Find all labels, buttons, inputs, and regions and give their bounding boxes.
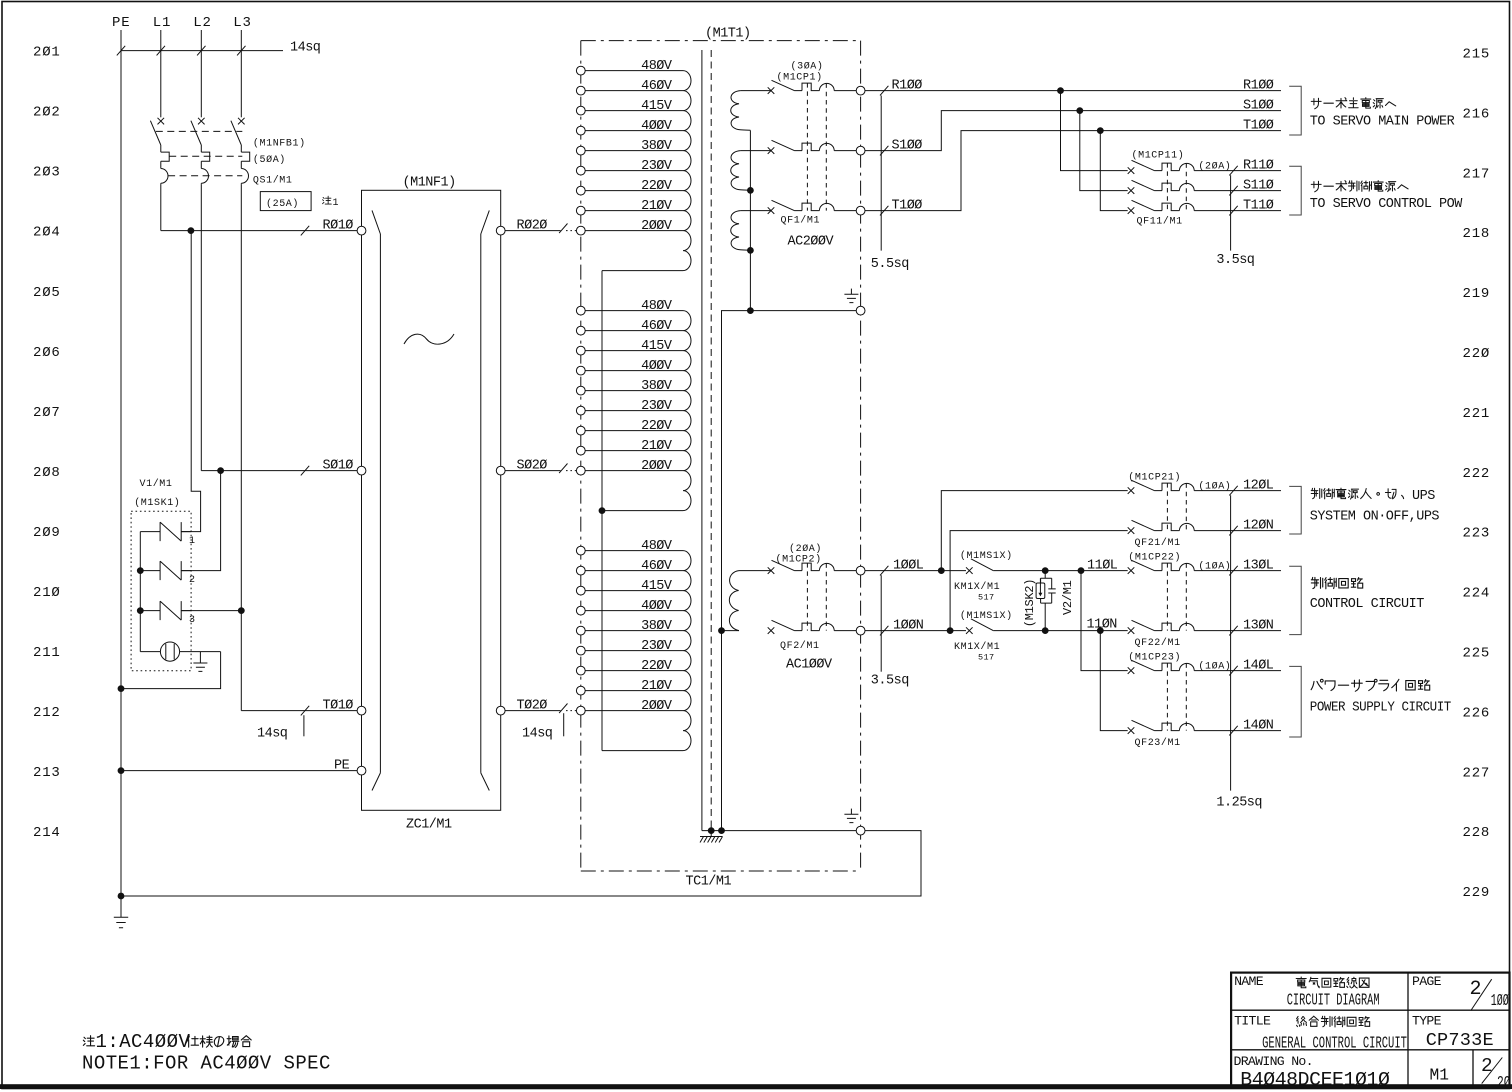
size slash <box>1229 566 1237 576</box>
wire S010 row <box>201 470 357 472</box>
svg-text:2Ø3: 2Ø3 <box>33 165 61 181</box>
wire core/bus bottom <box>702 830 856 832</box>
svg-text:V1/M1: V1/M1 <box>140 478 173 490</box>
svg-text:UPS: UPS <box>1412 489 1435 504</box>
wire L3 to T010 <box>240 184 242 711</box>
svg-text:(5ØA): (5ØA) <box>253 154 286 166</box>
contact KM1X/M1 on 100L <box>966 559 993 574</box>
svg-text:M1: M1 <box>1430 1067 1449 1085</box>
svg-text:2Ø8: 2Ø8 <box>33 465 61 481</box>
junction dot R100 tap <box>1057 87 1064 94</box>
svg-text:T1ØØ: T1ØØ <box>1243 118 1274 133</box>
svg-text:11ØL: 11ØL <box>1087 558 1118 573</box>
svg-text:(2ØA): (2ØA) <box>789 543 822 555</box>
size slash 100L <box>880 566 888 576</box>
svg-text:TO SERVO CONTROL POW: TO SERVO CONTROL POW <box>1310 197 1463 212</box>
secondary winding AC100V <box>739 570 771 572</box>
circuit breaker QF21/M1 (M1CP21) 2-pole <box>1128 480 1281 534</box>
size slash <box>237 46 245 56</box>
svg-text:QS1/M1: QS1/M1 <box>253 175 293 187</box>
svg-text:AC1ØØV: AC1ØØV <box>786 658 833 673</box>
circuit breaker QF1/M1 (M1CP1) 3-pole <box>768 80 857 214</box>
terminal 100L <box>856 566 865 575</box>
svg-text:14ØL: 14ØL <box>1243 658 1274 673</box>
svg-text:21Ø: 21Ø <box>33 585 61 601</box>
svg-text:517: 517 <box>978 652 995 662</box>
bracket power supply <box>1289 666 1301 737</box>
wire 110N <box>993 630 1127 632</box>
size leader 1.25sq <box>1230 495 1232 790</box>
text system on off UPS <box>1311 488 1322 498</box>
size slash <box>1229 486 1237 496</box>
svg-text:(1ØA): (1ØA) <box>1198 660 1231 672</box>
svg-text:B4Ø48DCEE1Ø1Ø: B4Ø48DCEE1Ø1Ø <box>1240 1069 1390 1091</box>
wire varistor3 to L3 <box>181 610 241 612</box>
note text 1 <box>83 1036 94 1046</box>
svg-text:RØ2Ø: RØ2Ø <box>517 218 548 233</box>
svg-text:3: 3 <box>189 615 196 626</box>
wire 100L to 120L <box>941 491 1127 571</box>
size slash <box>1229 526 1237 536</box>
bracket control circuit <box>1289 566 1301 634</box>
svg-text:2Ø4: 2Ø4 <box>33 225 61 241</box>
svg-text:TC1/M1: TC1/M1 <box>686 875 732 890</box>
svg-text:227: 227 <box>1463 765 1491 781</box>
svg-text:14sq: 14sq <box>522 727 552 742</box>
wire L3 top <box>240 30 242 117</box>
junction dot 110N branch <box>1097 627 1104 634</box>
svg-text:KM1X/M1: KM1X/M1 <box>954 581 1000 593</box>
size slash <box>1229 206 1237 216</box>
svg-text:12ØN: 12ØN <box>1243 518 1274 533</box>
svg-text:QF21/M1: QF21/M1 <box>1135 537 1181 549</box>
junction dot PE/spark <box>118 685 125 692</box>
svg-text:TYPE: TYPE <box>1412 1014 1442 1029</box>
wire T020 <box>505 710 560 712</box>
svg-text:14sq: 14sq <box>290 41 320 56</box>
size slash S100 <box>880 146 888 156</box>
junction dot varistor3/L3 <box>238 607 245 614</box>
wire PE row <box>121 770 357 772</box>
noise filter ZC1/M1 (M1NF1) <box>357 175 505 832</box>
wire T100 to QF11 <box>1100 131 1127 211</box>
svg-text:PAGE: PAGE <box>1412 974 1442 989</box>
transformer core <box>701 50 703 831</box>
svg-text:TØ1Ø: TØ1Ø <box>323 698 354 713</box>
junction dot S010/V2 <box>217 467 224 474</box>
text power supply circuit <box>1311 679 1323 689</box>
svg-text:SØ2Ø: SØ2Ø <box>517 458 548 473</box>
svg-text:1:AC4ØØV: 1:AC4ØØV <box>96 1031 191 1053</box>
svg-text:QF22/M1: QF22/M1 <box>1135 637 1181 649</box>
svg-text:(2ØA): (2ØA) <box>1198 160 1231 172</box>
svg-text:3.5sq: 3.5sq <box>1216 253 1254 268</box>
svg-text:5.5sq: 5.5sq <box>871 257 909 272</box>
wire L2 top <box>200 30 202 117</box>
svg-text:3.5sq: 3.5sq <box>871 673 909 688</box>
wire 110L <box>993 570 1127 572</box>
size slash T100 <box>880 206 888 216</box>
svg-text:(3ØA): (3ØA) <box>791 61 824 73</box>
wire S100 <box>865 111 1281 151</box>
svg-text:222: 222 <box>1463 466 1491 482</box>
svg-text:R11Ø: R11Ø <box>1243 158 1274 173</box>
svg-text:(M1SK2): (M1SK2) <box>1023 579 1037 627</box>
secondary winding T100 <box>741 210 771 212</box>
svg-text:2: 2 <box>189 575 196 586</box>
bracket servo main <box>1289 86 1301 135</box>
svg-text:13ØN: 13ØN <box>1243 618 1274 633</box>
wire S020 <box>505 470 560 472</box>
wire L1 top <box>160 30 162 117</box>
svg-text:(M1NFB1): (M1NFB1) <box>253 138 306 150</box>
size slash <box>1229 186 1237 196</box>
transformer enclosure TC1/M1 (M1T1) <box>581 40 861 42</box>
junction dot 100N branch <box>947 627 954 634</box>
wire PE vertical <box>120 30 122 896</box>
svg-text:TITLE: TITLE <box>1234 1014 1271 1029</box>
earth symbol at V1 <box>199 652 201 663</box>
svg-text:(M1MS1X): (M1MS1X) <box>960 550 1013 562</box>
svg-text:QF1/M1: QF1/M1 <box>781 215 821 227</box>
svg-text:212: 212 <box>33 705 61 721</box>
wire varistor2 to S010 <box>181 471 220 571</box>
svg-text:(M1CP22): (M1CP22) <box>1128 551 1181 563</box>
svg-text:S11Ø: S11Ø <box>1243 178 1274 193</box>
svg-text:L2: L2 <box>193 15 211 31</box>
svg-text:217: 217 <box>1463 166 1491 182</box>
svg-text:13ØL: 13ØL <box>1243 558 1274 573</box>
junction dot T100 tap <box>1097 127 1104 134</box>
row numbers left 201-214 <box>33 45 61 842</box>
wire star bus to case ground top <box>750 310 856 312</box>
svg-text:1: 1 <box>333 198 340 209</box>
size leader 14sq T020 <box>563 713 565 736</box>
wire L1 to R010 <box>160 184 162 231</box>
wire varistor1 to R010 <box>181 231 200 532</box>
svg-text:1ØØL: 1ØØL <box>893 558 924 573</box>
svg-text:2Ø9: 2Ø9 <box>33 525 61 541</box>
size slash <box>1229 666 1237 676</box>
svg-text:228: 228 <box>1463 825 1491 841</box>
svg-text:14ØN: 14ØN <box>1243 718 1274 733</box>
bracket servo control <box>1289 166 1301 215</box>
svg-text:GENERAL CONTROL CIRCUIT: GENERAL CONTROL CIRCUIT <box>1262 1034 1407 1053</box>
junction dot 100L branch <box>938 567 945 574</box>
circuit breaker QS1/M1 (M1NFB1) 3-pole <box>150 118 249 184</box>
junction dot S100 tap <box>1076 107 1083 114</box>
svg-text:T1ØØ: T1ØØ <box>892 198 923 213</box>
wire 100N coil to bus <box>722 630 740 632</box>
contact KM1X/M1 on 100N <box>966 619 993 634</box>
size slash <box>157 46 165 56</box>
svg-text:T11Ø: T11Ø <box>1243 198 1274 213</box>
text servo control power <box>1311 181 1321 192</box>
size leader 5.5sq <box>880 96 882 251</box>
svg-text:229: 229 <box>1463 885 1491 901</box>
svg-text:V2/M1: V2/M1 <box>1061 580 1075 615</box>
svg-text:(M1NF1): (M1NF1) <box>403 175 456 190</box>
svg-text:(M1MS1X): (M1MS1X) <box>960 610 1013 622</box>
svg-text:CP733E: CP733E <box>1426 1030 1494 1051</box>
svg-text:(1ØA): (1ØA) <box>1198 480 1231 492</box>
chassis ground <box>710 831 712 837</box>
size slash <box>117 46 125 56</box>
terminal 100N <box>856 626 865 635</box>
svg-text:PE: PE <box>112 15 130 31</box>
svg-text:(M1CP21): (M1CP21) <box>1128 471 1181 483</box>
wire 100N to 120N <box>950 531 1128 631</box>
size slash <box>197 46 205 56</box>
secondary winding R100 <box>741 90 771 92</box>
svg-text:KM1X/M1: KM1X/M1 <box>954 641 1000 653</box>
svg-text:S1ØØ: S1ØØ <box>892 138 923 153</box>
svg-text:221: 221 <box>1463 406 1491 422</box>
svg-text:DRAWING No.: DRAWING No. <box>1234 1054 1313 1069</box>
wire spark gap to PE <box>121 652 221 689</box>
junction dot primary bus <box>599 507 606 514</box>
svg-text:226: 226 <box>1463 705 1491 721</box>
svg-text:(M1CP23): (M1CP23) <box>1128 651 1181 663</box>
wire 14sq size line row201 <box>121 50 283 52</box>
svg-text:QF23/M1: QF23/M1 <box>1135 737 1181 749</box>
svg-text:TO SERVO MAIN POWER: TO SERVO MAIN POWER <box>1310 114 1455 129</box>
svg-text:1ØØN: 1ØØN <box>893 618 924 633</box>
svg-text:NAME: NAME <box>1234 974 1264 989</box>
wire S100 to QF11 <box>1080 111 1128 191</box>
svg-text:L3: L3 <box>233 15 251 31</box>
size slash <box>1229 626 1237 636</box>
terminal R100 <box>856 86 865 95</box>
text servo main power <box>1311 98 1321 109</box>
svg-text:211: 211 <box>33 645 61 661</box>
earth symbol bottom <box>850 809 852 815</box>
svg-text:2: 2 <box>1481 1055 1493 1077</box>
svg-text:1.25sq: 1.25sq <box>1216 796 1262 811</box>
svg-text:213: 213 <box>33 765 61 781</box>
circuit breaker QF22/M1 (M1CP22) 2-pole <box>1128 560 1281 634</box>
svg-text:2Ø7: 2Ø7 <box>33 405 61 421</box>
terminal case ground top <box>856 306 865 315</box>
size slash S010 <box>301 466 309 476</box>
size slash <box>1229 726 1237 736</box>
circuit breaker QF23/M1 (M1CP23) 2-pole <box>1128 660 1281 734</box>
terminal S100 <box>856 146 865 155</box>
svg-text:1: 1 <box>189 536 196 547</box>
svg-text:AC2ØØV: AC2ØØV <box>788 234 835 249</box>
svg-text:PE: PE <box>334 759 350 774</box>
svg-text:219: 219 <box>1463 286 1491 302</box>
size leader 3.5sq left <box>880 575 882 672</box>
wire R020 <box>505 230 560 232</box>
svg-text:SØ1Ø: SØ1Ø <box>323 458 354 473</box>
svg-text:QF11/M1: QF11/M1 <box>1137 215 1183 227</box>
size leader 3.5sq right <box>1230 175 1232 250</box>
size leader 14sq <box>303 715 305 736</box>
earth symbol top <box>850 289 852 295</box>
note box (25A) <box>260 192 311 211</box>
junction dot R010/V1 <box>188 227 195 234</box>
row numbers right 215-229 <box>1463 47 1491 902</box>
svg-text:R1ØØ: R1ØØ <box>1243 78 1274 93</box>
secondary winding S100 <box>741 150 771 152</box>
svg-text:(M1CP11): (M1CP11) <box>1132 150 1185 162</box>
svg-text:NOTE1:FOR AC4ØØV SPEC: NOTE1:FOR AC4ØØV SPEC <box>82 1053 331 1075</box>
svg-text:CONTROL CIRCUIT: CONTROL CIRCUIT <box>1310 597 1424 612</box>
wire L2 to S010 <box>200 184 202 471</box>
circuit breaker QF2/M1 (M1CP2) 2-pole <box>768 560 857 634</box>
svg-text:2Ø2: 2Ø2 <box>33 105 61 121</box>
svg-text:2Ø1: 2Ø1 <box>33 45 61 61</box>
svg-text:224: 224 <box>1463 586 1491 602</box>
size slash 100N <box>880 626 888 636</box>
svg-text:(M1CP1): (M1CP1) <box>777 72 823 84</box>
svg-text:TØ2Ø: TØ2Ø <box>517 698 548 713</box>
svg-text:SYSTEM ON·OFF,UPS: SYSTEM ON·OFF,UPS <box>1310 510 1440 525</box>
title block <box>1231 973 1511 1092</box>
circuit breaker QF11/M1 (M1CP11) 3-pole <box>1128 160 1281 214</box>
wire R100 to QF11 <box>1061 91 1128 171</box>
bracket system on off <box>1289 486 1301 534</box>
label note1 ref <box>323 196 332 204</box>
wire 110N to 140N <box>1100 631 1127 731</box>
svg-text:2Ø5: 2Ø5 <box>33 285 61 301</box>
svg-text:(M1SK1): (M1SK1) <box>134 497 180 509</box>
terminal case ground bottom <box>856 826 865 835</box>
svg-text:POWER SUPPLY CIRCUIT: POWER SUPPLY CIRCUIT <box>1310 701 1451 716</box>
svg-text:22Ø: 22Ø <box>1463 346 1491 362</box>
svg-text:14sq: 14sq <box>257 727 287 742</box>
svg-text:RØ1Ø: RØ1Ø <box>323 218 354 233</box>
terminal T100 <box>856 206 865 215</box>
wire 110L to 140L <box>1081 571 1128 671</box>
svg-text:ZC1/M1: ZC1/M1 <box>406 817 452 832</box>
svg-text:225: 225 <box>1463 646 1491 662</box>
svg-text:QF2/M1: QF2/M1 <box>780 640 820 652</box>
svg-text:(25A): (25A) <box>266 198 299 210</box>
svg-text:517: 517 <box>978 592 995 602</box>
svg-text:216: 216 <box>1463 106 1491 122</box>
wire 100L <box>865 570 966 572</box>
wire T010 row <box>241 710 357 712</box>
size slash R100 <box>880 86 888 96</box>
svg-text:214: 214 <box>33 825 61 841</box>
wire secondary star bus <box>722 130 751 830</box>
svg-text:R1ØØ: R1ØØ <box>892 78 923 93</box>
wire R100 <box>865 90 1281 92</box>
svg-text:(M1T1): (M1T1) <box>705 26 751 41</box>
svg-text:2Ø: 2Ø <box>1497 1074 1511 1092</box>
surge absorber V2/M1 (M1SK2) <box>1023 567 1075 634</box>
svg-text:CIRCUIT DIAGRAM: CIRCUIT DIAGRAM <box>1287 993 1380 1011</box>
wire ground return to PE <box>121 831 921 896</box>
svg-text:S1ØØ: S1ØØ <box>1243 98 1274 113</box>
size slash <box>1229 166 1237 176</box>
wire 100N <box>865 630 966 632</box>
junction dot 110L branch <box>1078 567 1085 574</box>
svg-text:2Ø6: 2Ø6 <box>33 345 61 361</box>
svg-text:(M1CP2): (M1CP2) <box>776 554 822 566</box>
size slash T010 <box>301 706 309 716</box>
surge absorber V1/M1 (M1SK1) <box>131 478 221 671</box>
svg-text:12ØL: 12ØL <box>1243 478 1274 493</box>
PE earth symbol <box>120 896 122 917</box>
wire primary star bus <box>601 271 603 751</box>
svg-text:L1: L1 <box>153 15 171 31</box>
svg-text:1ØØ: 1ØØ <box>1491 991 1509 1010</box>
wire R010 row <box>161 230 357 232</box>
svg-text:218: 218 <box>1463 226 1491 242</box>
size slash R010 <box>301 226 309 236</box>
svg-text:223: 223 <box>1463 526 1491 542</box>
wire T100 <box>865 131 1281 211</box>
junction dot PE row <box>118 767 125 774</box>
svg-text:(1ØA): (1ØA) <box>1198 560 1231 572</box>
text control circuit <box>1311 577 1322 588</box>
svg-text:215: 215 <box>1463 47 1491 63</box>
